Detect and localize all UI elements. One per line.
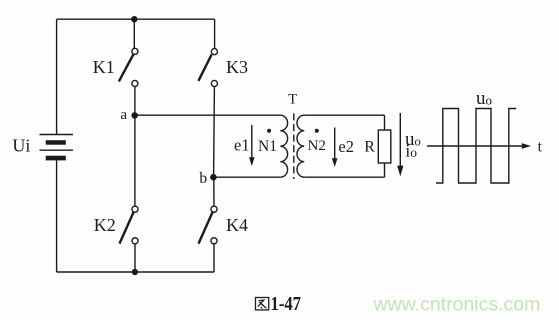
battery Ui plate 4 (short thick) [46, 156, 66, 161]
switch K3 top contact [211, 49, 217, 55]
wire node a to K2 [134, 115, 136, 206]
wire K4 to bottom rail [213, 244, 215, 272]
wire left vertical upper [56, 19, 58, 134]
switch K1 top contact [132, 48, 138, 54]
wire left vertical lower [56, 160, 58, 272]
svg-text:R: R [364, 138, 375, 155]
switch K4 bottom contact [211, 238, 217, 244]
node bottom junction [132, 269, 138, 275]
transformer primary winding N1 [280, 115, 287, 177]
transformer core [293, 113, 295, 179]
battery Ui plate 2 (short thick) [46, 140, 66, 145]
svg-text:b: b [199, 170, 207, 187]
switch K3 blade [198, 55, 211, 81]
waveform t axis [427, 143, 531, 149]
wire node b to transformer primary bottom [213, 176, 280, 178]
switch K3 bottom contact [211, 80, 217, 86]
transformer secondary winding N2 [297, 115, 304, 177]
svg-text:K1: K1 [93, 57, 115, 77]
node top junction [131, 16, 137, 22]
svg-text:e1: e1 [234, 135, 250, 154]
wire secondary top [304, 114, 384, 116]
wire K2 to bottom rail [134, 244, 136, 272]
node b junction [210, 174, 217, 181]
wire resistor to secondary bottom [384, 163, 386, 177]
switch K4 top contact [211, 206, 217, 212]
svg-text:K3: K3 [226, 57, 248, 77]
svg-text:e2: e2 [338, 137, 354, 156]
switch K4 blade [199, 212, 213, 243]
svg-text:T: T [288, 92, 297, 108]
waveform square wave uo [436, 109, 516, 184]
svg-text:Ui: Ui [12, 136, 30, 156]
svg-text:uo: uo [476, 88, 492, 109]
svg-text:N1: N1 [258, 138, 277, 155]
wire secondary bottom [304, 176, 384, 178]
caption figure number 图1-47 [256, 298, 269, 310]
switch K1 bottom contact [132, 80, 138, 86]
svg-text:K2: K2 [94, 215, 116, 235]
wire node a to transformer primary top [135, 114, 281, 116]
svg-text:N2: N2 [308, 138, 326, 154]
switch K1 blade [119, 54, 134, 81]
arrow uo io [397, 113, 403, 177]
node a junction [131, 112, 138, 119]
polarity dot N1 [267, 129, 271, 133]
resistor R body [378, 130, 391, 163]
wire bottom rail [57, 271, 215, 273]
arrow e1 [249, 125, 255, 166]
switch K2 blade [120, 212, 134, 243]
switch K2 top contact [132, 206, 138, 212]
wire K3 to node b [213, 86, 216, 177]
arrow e2 [332, 128, 338, 168]
svg-text:www.cntronics.com: www.cntronics.com [373, 294, 541, 316]
wire top rail to K1 [133, 19, 135, 48]
wire top rail to K3 [214, 19, 216, 48]
wire secondary top to resistor [384, 115, 386, 130]
polarity dot N2 [315, 129, 319, 133]
svg-text:K4: K4 [226, 215, 248, 235]
wire node b to K4 [213, 177, 215, 206]
battery Ui plate 1 (long) [40, 134, 74, 136]
wire top rail [57, 18, 215, 20]
svg-text:t: t [538, 139, 543, 156]
switch K2 bottom contact [132, 238, 138, 244]
battery Ui plate 3 (long) [40, 149, 74, 151]
svg-text:1-47: 1-47 [271, 294, 302, 315]
wire K1 to node a [134, 86, 136, 115]
svg-text:a: a [120, 107, 127, 123]
